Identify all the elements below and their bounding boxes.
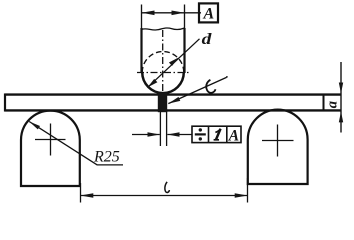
thickness dimension a (right) (325, 62, 344, 133)
symmetry tolerance frame [÷|1|A] (192, 126, 241, 144)
specimen plate (5, 94, 342, 112)
label l (cursive) (165, 182, 170, 193)
right support center cross (262, 125, 294, 157)
weld leader with t-label (168, 76, 228, 104)
svg-text:d: d (202, 30, 213, 48)
left support roller (21, 111, 80, 186)
svg-text:a: a (325, 101, 341, 108)
right support roller (248, 110, 308, 184)
punch body (142, 28, 185, 73)
weld width dimension with extension lines (132, 112, 192, 147)
svg-text:R25: R25 (93, 149, 120, 166)
weld seam (black) (158, 93, 167, 112)
span dimension l (bottom) (80, 178, 247, 203)
punch tip ball (dashed hidden top, solid bottom) (142, 52, 184, 94)
centerline horizontal (137, 72, 189, 74)
radius leader R25 (29, 122, 123, 165)
label t (cursive) (206, 80, 215, 93)
svg-text:A: A (228, 127, 239, 144)
svg-text:A: A (202, 5, 214, 22)
centerline vertical (162, 30, 164, 107)
left support center cross (35, 124, 66, 156)
view datum box A (top) (199, 3, 218, 22)
top width dimension (142, 5, 202, 29)
diameter dimension d (148, 39, 200, 88)
